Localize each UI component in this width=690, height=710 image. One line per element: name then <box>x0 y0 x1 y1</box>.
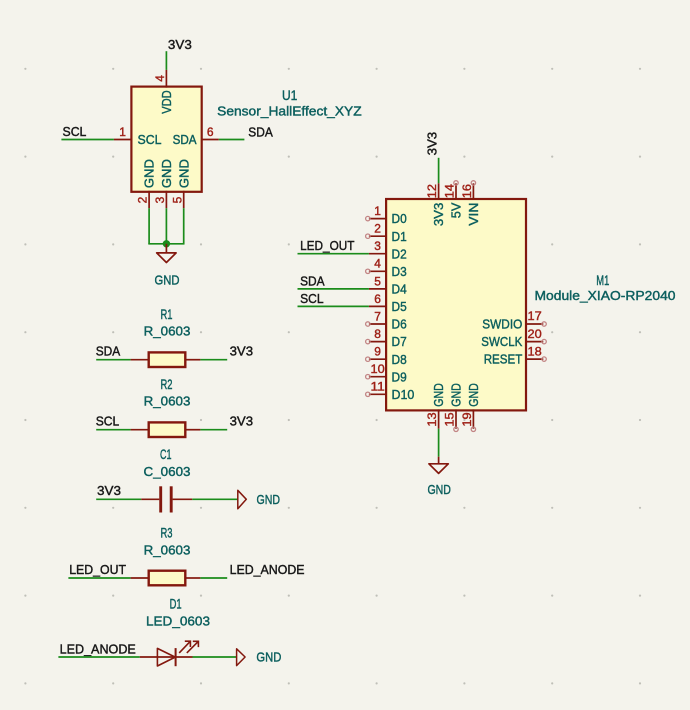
LED D1 triangle <box>157 648 175 666</box>
R2 pin 2 <box>185 429 200 431</box>
svg-text:6: 6 <box>374 292 381 306</box>
svg-text:3V3: 3V3 <box>97 483 121 498</box>
wire D1 to GND label <box>193 656 237 658</box>
svg-text:LED_OUT: LED_OUT <box>300 238 354 253</box>
svg-text:19: 19 <box>460 412 474 427</box>
resistor R1 body <box>149 352 186 367</box>
svg-text:VDD: VDD <box>159 90 174 114</box>
resistor R3 body <box>149 571 186 586</box>
svg-text:D9: D9 <box>392 369 407 384</box>
unconnected pin 7 <box>366 322 370 326</box>
wire SDA to R1 <box>96 359 130 361</box>
unconnected pin 10 <box>366 375 370 379</box>
svg-text:M1: M1 <box>596 273 609 288</box>
svg-text:GND: GND <box>466 383 481 407</box>
R1 pin 1 <box>131 359 149 361</box>
U1 pin 1 SCL <box>114 139 131 141</box>
svg-text:SCL: SCL <box>300 291 324 306</box>
svg-text:20: 20 <box>528 327 543 341</box>
wire SDA <box>298 288 369 290</box>
svg-text:2: 2 <box>136 196 150 203</box>
svg-text:3V3: 3V3 <box>168 37 192 52</box>
svg-text:3V3: 3V3 <box>230 414 254 429</box>
M1 pin 2 D1 <box>369 235 386 237</box>
wire pin 13 to ground <box>438 429 440 457</box>
R3 pin 2 <box>185 577 200 579</box>
svg-text:D0: D0 <box>392 211 407 226</box>
hierarchical label GND at D1 <box>237 649 246 666</box>
svg-text:U1: U1 <box>282 88 297 103</box>
wire 3V3 to U1 pin 4 <box>165 51 167 70</box>
svg-text:SCL: SCL <box>63 124 87 139</box>
M1 pin 13 GND <box>438 409 440 428</box>
LED D1 emission arrows <box>179 641 198 653</box>
svg-text:18: 18 <box>528 344 543 358</box>
unconnected pin 9 <box>366 357 370 361</box>
svg-text:3: 3 <box>374 239 381 253</box>
svg-text:SCL: SCL <box>96 414 120 429</box>
capacitor C1 plates <box>159 486 162 512</box>
wire 3V3 to M1 pin 12 <box>438 158 440 184</box>
svg-text:SDA: SDA <box>300 273 325 288</box>
U1 pin 6 SDA <box>202 139 219 141</box>
svg-text:4: 4 <box>374 257 381 271</box>
wire R1 to 3V3 <box>200 359 227 361</box>
wire gnd bus <box>148 243 184 245</box>
M1 pin 4 D3 <box>369 270 386 272</box>
M1 pin 20 SWCLK <box>526 341 543 343</box>
svg-text:GND: GND <box>142 159 157 188</box>
svg-text:SWDIO: SWDIO <box>482 317 522 332</box>
svg-text:13: 13 <box>425 412 439 427</box>
M1 pin 18 RESET <box>526 358 543 360</box>
svg-text:Sensor_HallEffect_XYZ: Sensor_HallEffect_XYZ <box>217 103 362 118</box>
unconnected pin 14 <box>454 181 458 185</box>
svg-text:SWCLK: SWCLK <box>481 334 522 349</box>
wire LED_OUT <box>298 253 369 255</box>
svg-text:1: 1 <box>374 204 381 218</box>
unconnected pin 16 <box>471 181 475 185</box>
M1 pin 19 GND <box>472 409 474 428</box>
svg-text:15: 15 <box>443 412 457 427</box>
R3 pin 1 <box>131 577 149 579</box>
svg-text:7: 7 <box>374 309 381 323</box>
svg-text:D1: D1 <box>170 597 182 612</box>
D1 cathode pin <box>176 656 192 658</box>
wire R3 to LED_ANODE <box>200 577 227 579</box>
svg-text:5: 5 <box>170 196 184 203</box>
svg-text:D4: D4 <box>392 282 407 297</box>
U1 pin 3 GND <box>165 191 167 208</box>
svg-text:3V3: 3V3 <box>424 132 439 156</box>
svg-text:6: 6 <box>207 125 214 139</box>
M1 pin 6 D5 <box>369 305 386 307</box>
wire LED_OUT to R3 <box>68 577 130 579</box>
svg-text:GND: GND <box>159 159 174 188</box>
C1 pin 2 <box>173 498 193 500</box>
M1 pin 15 GND <box>455 409 457 428</box>
ground symbol below M1 <box>438 457 440 464</box>
svg-text:1: 1 <box>119 125 126 139</box>
svg-text:R_0603: R_0603 <box>144 394 191 409</box>
unconnected pin 1 <box>366 216 370 220</box>
svg-text:5V: 5V <box>449 202 464 218</box>
junction <box>163 241 169 247</box>
svg-text:LED_ANODE: LED_ANODE <box>60 641 137 656</box>
svg-text:D7: D7 <box>392 334 407 349</box>
U1 pin 2 GND <box>148 191 150 208</box>
svg-text:12: 12 <box>425 184 439 199</box>
unconnected pin 19 <box>471 427 475 431</box>
unconnected pin 20 <box>542 339 546 343</box>
M1 pin 16 VIN <box>472 183 474 200</box>
unconnected pin 17 <box>542 322 546 326</box>
svg-text:R1: R1 <box>161 307 173 322</box>
svg-text:D2: D2 <box>392 246 407 261</box>
D1 cathode bar <box>175 648 177 666</box>
svg-text:Module_XIAO-RP2040: Module_XIAO-RP2040 <box>535 288 676 303</box>
svg-text:D1: D1 <box>392 229 407 244</box>
wire LED_ANODE to D1 <box>58 656 139 658</box>
M1 pin 10 D9 <box>369 376 386 378</box>
svg-text:17: 17 <box>528 309 543 323</box>
R2 pin 1 <box>131 429 149 431</box>
wire R2 to 3V3 <box>200 429 227 431</box>
unconnected pin 8 <box>366 339 370 343</box>
svg-text:R3: R3 <box>161 525 173 540</box>
svg-text:R_0603: R_0603 <box>144 542 191 557</box>
M1 pin 9 D8 <box>369 358 386 360</box>
svg-text:D5: D5 <box>392 299 407 314</box>
op-amp M1 Module_XIAO-RP2040 symbol body <box>386 199 526 410</box>
svg-text:R_0603: R_0603 <box>144 324 191 339</box>
R1 pin 2 <box>185 359 200 361</box>
svg-text:SDA: SDA <box>96 344 121 359</box>
svg-text:GND: GND <box>176 159 191 188</box>
M1 pin 8 D7 <box>369 341 386 343</box>
svg-text:3: 3 <box>153 196 167 203</box>
M1 pin 7 D6 <box>369 323 386 325</box>
resistor R2 body <box>149 422 186 437</box>
wire 3V3 to C1 <box>96 498 141 500</box>
M1 pin 14 5V <box>455 183 457 200</box>
svg-text:D10: D10 <box>392 387 415 402</box>
M1 pin 11 D10 <box>369 393 386 395</box>
M1 pin 1 D0 <box>369 218 386 220</box>
wire C1 to GND label <box>192 498 237 500</box>
svg-text:LED_OUT: LED_OUT <box>69 562 126 577</box>
M1 pin 3 D2 <box>369 253 386 255</box>
svg-text:D8: D8 <box>392 352 407 367</box>
svg-text:GND: GND <box>449 383 464 407</box>
unconnected pin 15 <box>454 427 458 431</box>
wire pin3 to gnd bus <box>165 208 167 244</box>
svg-text:SCL: SCL <box>138 132 162 147</box>
svg-text:8: 8 <box>374 327 381 341</box>
svg-text:2: 2 <box>374 222 381 236</box>
svg-text:R2: R2 <box>161 377 173 392</box>
wire SDA <box>219 139 245 141</box>
svg-text:9: 9 <box>374 345 381 359</box>
svg-text:LED_ANODE: LED_ANODE <box>230 562 305 577</box>
M1 pin 5 D4 <box>369 288 386 290</box>
svg-text:RESET: RESET <box>484 352 523 367</box>
svg-text:D6: D6 <box>392 317 407 332</box>
svg-text:GND: GND <box>427 482 451 497</box>
unconnected pin 2 <box>366 234 370 238</box>
M1 pin 12 3V3 <box>438 183 440 200</box>
svg-text:GND: GND <box>256 649 281 664</box>
svg-text:VIN: VIN <box>466 203 481 226</box>
wire pin2 to gnd bus <box>148 208 150 244</box>
svg-text:11: 11 <box>371 380 386 394</box>
svg-text:16: 16 <box>460 184 474 199</box>
wire SCL <box>298 305 369 307</box>
svg-text:GND: GND <box>155 272 180 287</box>
wire SCL to R2 <box>96 429 130 431</box>
svg-text:3V3: 3V3 <box>230 344 254 359</box>
svg-text:14: 14 <box>443 184 457 199</box>
svg-text:3V3: 3V3 <box>431 203 446 227</box>
svg-text:GND: GND <box>257 492 281 507</box>
svg-text:10: 10 <box>371 362 386 376</box>
M1 pin 17 SWDIO <box>526 323 543 325</box>
wire pin5 to gnd bus <box>183 208 185 244</box>
unconnected pin 4 <box>366 269 370 273</box>
svg-text:C_0603: C_0603 <box>144 464 191 479</box>
svg-text:SDA: SDA <box>248 124 273 139</box>
svg-text:GND: GND <box>431 383 446 407</box>
svg-text:4: 4 <box>153 75 167 82</box>
unconnected pin 18 <box>542 357 546 361</box>
U1 pin 4 VDD <box>165 70 167 88</box>
hierarchical label GND at C1 <box>238 490 247 509</box>
svg-text:SDA: SDA <box>173 132 197 147</box>
ground symbol below U1 <box>165 244 167 253</box>
svg-text:D3: D3 <box>392 264 407 279</box>
C1 pin 1 <box>141 498 159 500</box>
U1 pin 5 GND <box>183 191 185 208</box>
unconnected pin 11 <box>366 392 370 396</box>
wire SCL <box>61 139 114 141</box>
svg-text:LED_0603: LED_0603 <box>146 614 210 629</box>
svg-text:5: 5 <box>374 274 381 288</box>
op-amp U1 Sensor_HallEffect_XYZ symbol body <box>131 87 201 192</box>
svg-text:C1: C1 <box>160 447 172 462</box>
D1 anode pin <box>140 656 176 658</box>
